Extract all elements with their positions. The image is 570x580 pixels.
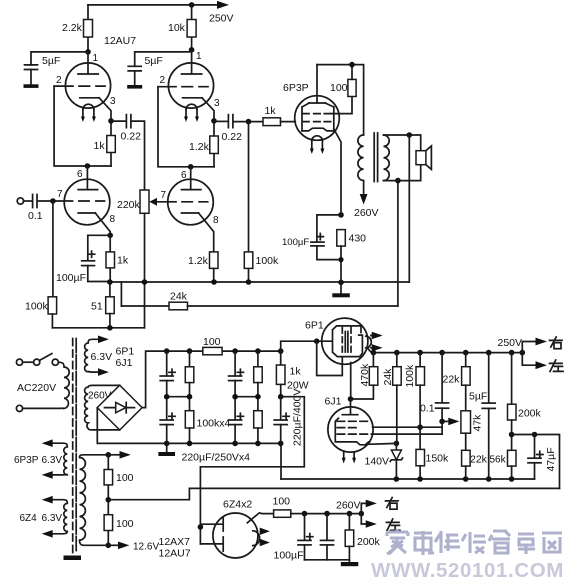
svg-text:0.22: 0.22 — [121, 131, 142, 143]
svg-text:6P1: 6P1 — [116, 346, 135, 358]
tube T1 grid — [54, 75, 105, 86]
capacitor C 47uF — [528, 435, 557, 480]
wire B rail to 6P1 — [281, 341, 332, 351]
svg-text:8: 8 — [213, 215, 219, 226]
transformer winding 6.3V heater 6P1 6J1 — [85, 336, 135, 376]
tube T1 cathode — [80, 96, 116, 121]
wire 1k20W bottom loop right — [200, 397, 304, 544]
AC input terminal top — [16, 359, 22, 365]
svg-text:100µF: 100µF — [282, 237, 309, 248]
resistor R 56k — [490, 450, 517, 479]
tube V 6J1 envelope — [325, 396, 374, 453]
svg-text:220k: 220k — [117, 199, 141, 211]
SEC-PSU — [14, 336, 560, 567]
capacitor C filter A1 220uF — [160, 351, 175, 397]
tube 6P3P beam electrodes — [302, 103, 334, 131]
junction 200k mid — [509, 432, 515, 438]
svg-text:1: 1 — [93, 53, 99, 64]
resistor R 22k lower — [462, 433, 488, 479]
capacitor C 220uF 400V — [274, 389, 303, 446]
junction plate T1 — [85, 49, 98, 64]
tube T2 12AU7b envelope — [168, 63, 213, 108]
svg-text:1k: 1k — [117, 255, 129, 267]
transformer OPT core — [374, 133, 377, 182]
svg-text:24k: 24k — [382, 368, 394, 386]
resistor R 100 psu — [203, 336, 222, 355]
node AC220V label — [17, 382, 56, 394]
wire secondary bottom — [384, 165, 421, 184]
speaker — [416, 146, 431, 169]
AC input terminal bottom — [16, 405, 22, 411]
capacitor C 5uF no1 — [24, 52, 89, 88]
wire output bottom to 24k rail — [397, 181, 399, 306]
svg-text:140V: 140V — [365, 456, 390, 468]
resistor R 1.2k cathode T4 — [188, 252, 218, 282]
resistor R 200k reg — [508, 353, 542, 451]
resistor R 1k 20W — [276, 351, 308, 397]
ground filter rail — [158, 443, 175, 456]
bridge rectifier — [97, 385, 142, 430]
resistor R 51 — [91, 282, 114, 328]
svg-text:6.3V: 6.3V — [42, 455, 63, 466]
tube 6P3P plate — [309, 65, 326, 103]
junction rail A dots — [394, 476, 515, 482]
wire bridge minus rail — [97, 408, 281, 479]
junction plate T2 — [189, 47, 202, 62]
svg-text:220µF/250Vx4: 220µF/250Vx4 — [182, 452, 251, 464]
svg-text:100kx4: 100kx4 — [197, 418, 231, 430]
svg-text:6.3V: 6.3V — [91, 351, 113, 363]
svg-text:22k: 22k — [470, 454, 488, 466]
tube V 6Z4 envelope — [213, 499, 258, 559]
wire 220k to rails — [144, 213, 146, 327]
capacitor C filter C2 220uF — [229, 397, 244, 444]
ground 260V rail — [305, 560, 359, 566]
tube T2 cathode — [183, 98, 220, 121]
hanzi right ch — [386, 498, 399, 510]
svg-text:2.2k: 2.2k — [62, 22, 83, 34]
tube 6P3P heater — [310, 136, 325, 154]
capacitor C 0.22 no2 — [214, 115, 263, 143]
svg-text:250V: 250V — [209, 13, 234, 25]
tube 6J1 electrodes — [335, 418, 369, 445]
wire ground mini rail — [52, 325, 144, 331]
svg-text:100µF: 100µF — [56, 272, 86, 284]
capacitor C filter A2 220uF — [160, 397, 175, 444]
node label 100kx4 — [197, 418, 231, 430]
wire 260V right channel arrow — [361, 500, 377, 514]
svg-text:AC220V: AC220V — [17, 382, 56, 394]
potentiometer 220k — [117, 190, 168, 213]
svg-text:5µF: 5µF — [145, 55, 163, 67]
wire 6P1 staircase pin — [317, 341, 343, 375]
tube 6J1 heater arrows — [342, 452, 356, 464]
wire centertap to rail B — [108, 488, 559, 499]
wire output to rail1 — [408, 135, 410, 282]
resistor R 24k — [382, 353, 401, 444]
watermark hanzi line — [387, 529, 562, 555]
svg-text:7: 7 — [161, 190, 167, 201]
wire input node down — [52, 201, 54, 297]
svg-text:0.22: 0.22 — [222, 131, 243, 143]
junction 100k 6J1 line — [417, 424, 423, 430]
tube T4 12AU7 lower-mid envelope — [168, 179, 214, 225]
capacitor C 100uF cathode T3 — [56, 235, 110, 284]
wire secondary top — [384, 132, 421, 151]
node label 220uF250Vx4 — [182, 452, 251, 464]
wire T1 grid loop to node6 rail — [54, 86, 111, 166]
svg-text:2: 2 — [56, 75, 62, 86]
hanzi left ch — [387, 519, 401, 531]
wire cathode rail1 — [110, 281, 409, 283]
input jack — [17, 198, 23, 204]
transformer T core — [73, 339, 77, 554]
junction input node — [50, 198, 56, 204]
resistor R 1k grid 6P3P — [263, 105, 295, 126]
svg-text:12AU7: 12AU7 — [159, 548, 191, 560]
wire mid node to frame — [512, 432, 560, 489]
svg-text:12AU7: 12AU7 — [104, 35, 136, 47]
svg-text:22k: 22k — [443, 374, 461, 386]
svg-text:250V: 250V — [498, 337, 523, 349]
transformer winding 6.3V 6Z4 — [20, 496, 68, 538]
svg-text:5µF: 5µF — [42, 55, 60, 67]
svg-text:200k: 200k — [518, 408, 542, 420]
wire 6Z4 cathode out diagonal — [247, 513, 273, 523]
svg-text:6Z4: 6Z4 — [20, 513, 38, 524]
svg-text:100k: 100k — [256, 255, 280, 267]
tube label 12AU7 — [104, 35, 136, 47]
wire 250V top rail — [88, 1, 229, 9]
resistor R 100 humpot lower — [104, 515, 134, 531]
wire filter mid rail CD — [232, 394, 260, 400]
tube 6P1 electrodes — [333, 326, 363, 357]
junction rail1 dots — [107, 279, 344, 285]
svg-text:100: 100 — [330, 82, 348, 94]
svg-text:2: 2 — [160, 75, 166, 86]
tube 6P1 cathode — [366, 336, 372, 348]
svg-text:56k: 56k — [490, 455, 507, 466]
tube V 6P1 envelope — [305, 318, 368, 364]
svg-text:1.2k: 1.2k — [188, 255, 209, 267]
tube T3 12AU7 lower-left envelope — [64, 179, 110, 225]
svg-text:6J1: 6J1 — [325, 396, 342, 408]
resistor R 100 humpot upper — [104, 455, 134, 546]
wire ground rail A — [281, 478, 535, 480]
resistor R 200k 260V — [345, 514, 380, 560]
resistor R 2.2k — [62, 5, 93, 52]
junction 0.1 bottom arrow node — [439, 418, 459, 426]
svg-text:6: 6 — [77, 169, 83, 180]
svg-text:3: 3 — [214, 98, 220, 109]
tube 6Z4 heater arrows — [260, 528, 270, 547]
svg-text:10k: 10k — [168, 22, 186, 34]
wire 6P3P cathode down — [334, 129, 341, 215]
svg-text:6.3V: 6.3V — [42, 513, 63, 524]
svg-text:8: 8 — [110, 214, 116, 225]
resistor R 100 6Z4 out — [273, 496, 305, 518]
wire 250V rail — [373, 352, 522, 354]
tube T1 plate — [78, 52, 98, 74]
resistor R 1k cathode T1 — [94, 121, 116, 166]
wire 6J1 cathode — [367, 442, 397, 445]
junction 6P1 grid node — [314, 338, 320, 344]
svg-text:100: 100 — [116, 472, 134, 484]
transformer winding 12.6V — [80, 455, 109, 546]
resistor R 150k — [416, 449, 449, 479]
resistor R 22k upper — [443, 353, 471, 411]
tube T2 grid — [158, 75, 208, 87]
svg-text:24k: 24k — [170, 291, 188, 303]
resistor R 100k reg — [404, 353, 425, 450]
junction 250V rail dots — [371, 350, 525, 356]
ground transformer core — [64, 556, 82, 561]
wire OPT primary bottom 260V arrow — [354, 181, 379, 220]
svg-text:100: 100 — [116, 518, 134, 530]
wire 6P1 cathode to 250V rail — [368, 349, 373, 353]
tube T3 cathode pin8 — [78, 213, 115, 235]
svg-text:100: 100 — [203, 336, 221, 348]
junction top rail 10k — [189, 2, 195, 8]
wire bridge plus to B rail — [142, 351, 281, 408]
junction cathode T3 node — [107, 233, 113, 239]
node label 12AX7 12AU7 — [159, 536, 191, 560]
wire 6J1 screen line2 — [371, 433, 442, 435]
svg-text:100µF: 100µF — [274, 550, 304, 562]
junction cathode T2 node — [211, 118, 217, 124]
svg-text:100: 100 — [273, 496, 291, 508]
hanzi right ch 250V — [550, 337, 563, 349]
capacitor C 0.1 reg — [420, 353, 449, 435]
svg-text:470k: 470k — [359, 363, 371, 387]
svg-text:1k: 1k — [290, 366, 302, 378]
resistor R 100 screen — [330, 65, 356, 97]
svg-text:260V: 260V — [336, 500, 361, 512]
svg-text:0.1: 0.1 — [28, 210, 43, 222]
transformer T primary winding — [23, 362, 70, 408]
wire 6P3P screen to 100 — [331, 97, 352, 114]
ground output stage — [332, 282, 350, 297]
capacitor C 100uF cathode 6P3P — [282, 215, 341, 260]
junction node6 T3 — [77, 163, 90, 180]
tube 6P3P grids dashes — [303, 114, 331, 122]
tube T3 plate pin6 — [78, 166, 97, 190]
wire 6J1 plate line1 — [373, 426, 443, 428]
resistor R 100k grid leak — [244, 122, 279, 282]
zener diode 140V — [365, 443, 403, 479]
svg-text:1k: 1k — [265, 105, 277, 117]
wire 250V right channel arrow — [522, 338, 547, 353]
svg-text:1k: 1k — [94, 140, 106, 152]
node 250V label top — [209, 13, 234, 25]
junction 12.6V bottom arrow — [106, 542, 160, 553]
tube 6Z4 plates — [198, 517, 224, 551]
capacitor C 0.1 input — [24, 195, 53, 223]
wire T2 grid loop to node6 rail — [158, 87, 214, 167]
resistor R 100k bleed B1 — [185, 351, 194, 397]
svg-text:260V: 260V — [354, 207, 379, 219]
junction cathode T1 node — [108, 118, 114, 124]
svg-text:51: 51 — [91, 301, 103, 313]
svg-text:WWW.520101.COM: WWW.520101.COM — [371, 559, 564, 580]
transformer OPT secondary — [384, 135, 390, 181]
svg-text:6J1: 6J1 — [116, 357, 133, 369]
tube T4 grid pin7 — [161, 190, 208, 202]
junction coupling node — [246, 119, 252, 125]
resistor R 100k bleed B2 — [185, 397, 194, 444]
junction B rail dots — [164, 348, 284, 354]
capacitor C film 260V — [321, 514, 334, 560]
SEC-TOP — [17, 1, 431, 331]
svg-text:5µF: 5µF — [469, 391, 487, 403]
svg-text:12AX7: 12AX7 — [159, 536, 191, 548]
watermark url line — [371, 559, 564, 580]
resistor R 1.2k cathode T2 — [189, 121, 218, 167]
tube 6J1 plate — [342, 399, 358, 415]
resistor R 100k input — [25, 297, 57, 328]
svg-text:12.6V: 12.6V — [133, 542, 159, 553]
capacitor C 5uF no2 — [127, 52, 191, 89]
transformer OPT primary — [358, 135, 364, 181]
resistor R 430 — [337, 230, 366, 283]
tube T1 12AU7a envelope — [65, 63, 110, 108]
SEC-RIGHT — [281, 318, 563, 488]
resistor R 100k bleed D1 — [254, 351, 263, 397]
junction 6J1 plate node — [348, 396, 354, 402]
capacitor C 0.22 no1 — [111, 115, 145, 190]
switch S1 — [23, 354, 59, 366]
capacitor C filter C1 220uF — [229, 351, 244, 397]
svg-text:430: 430 — [349, 233, 367, 245]
svg-text:6P3P: 6P3P — [283, 82, 309, 94]
wire 6P1 to 6J1 plate — [350, 363, 352, 400]
wire 260V left channel arrow — [361, 514, 377, 528]
capacitor C 5uF reg — [469, 353, 495, 479]
SEC-WM — [371, 529, 564, 580]
junction 1k20W bottom — [278, 394, 284, 400]
svg-text:100k: 100k — [25, 301, 49, 313]
potentiometer 47k — [461, 411, 484, 433]
svg-text:0.1: 0.1 — [420, 403, 435, 415]
tube T1 heater — [81, 104, 96, 122]
svg-text:200k: 200k — [357, 536, 381, 548]
tube 6Z4 cathode — [253, 531, 260, 546]
svg-text:47µF: 47µF — [545, 447, 557, 471]
svg-text:100k: 100k — [404, 364, 416, 388]
resistor R 24k feedback — [121, 291, 397, 310]
transformer winding 6.3V 6P3P — [14, 439, 67, 478]
resistor R 1k cathode T3 — [106, 235, 129, 282]
resistor R 470k — [351, 353, 378, 399]
tube T4 plate pin6 — [182, 167, 201, 190]
svg-text:3: 3 — [110, 96, 116, 107]
hanzi left ch 250V — [550, 360, 564, 372]
wire 260V out rail — [302, 500, 364, 517]
junction zener top — [394, 441, 400, 447]
resistor R 10k — [168, 5, 196, 50]
svg-text:6Z4x2: 6Z4x2 — [223, 499, 252, 511]
tube 6P1 heater arrows — [371, 332, 383, 352]
svg-text:6P1: 6P1 — [305, 320, 324, 332]
node 250V label right — [498, 337, 523, 349]
wire 6P3P plate node to OPT — [317, 62, 364, 135]
svg-text:7: 7 — [57, 189, 63, 200]
capacitor C 100uF 260V — [274, 514, 313, 562]
wire filter mid rail AB — [164, 394, 192, 400]
tube V 6P3P envelope — [283, 82, 339, 140]
svg-text:150k: 150k — [426, 453, 450, 465]
svg-text:1: 1 — [196, 51, 202, 62]
resistor R 100k bleed D2 — [254, 397, 263, 444]
svg-text:1.2k: 1.2k — [189, 141, 210, 153]
tube T4 cathode pin8 — [182, 213, 220, 252]
wire feedback jog — [120, 282, 122, 306]
junction 12.6V top arrow — [106, 451, 131, 459]
svg-text:47k: 47k — [472, 414, 484, 432]
tube T3 grid pin7 — [53, 189, 105, 201]
junction 12.6V centertap — [106, 497, 112, 503]
junction 6P3P cathode node — [338, 212, 344, 218]
svg-text:6P3P: 6P3P — [14, 455, 39, 466]
junction minus rail dots — [164, 441, 284, 447]
transformer winding 260V HT — [85, 385, 120, 430]
tube T2 heater — [184, 104, 199, 122]
wire 250V left channel arrow — [522, 353, 547, 370]
tube T2 plate — [182, 50, 202, 74]
junction node6 T4 — [181, 164, 194, 181]
